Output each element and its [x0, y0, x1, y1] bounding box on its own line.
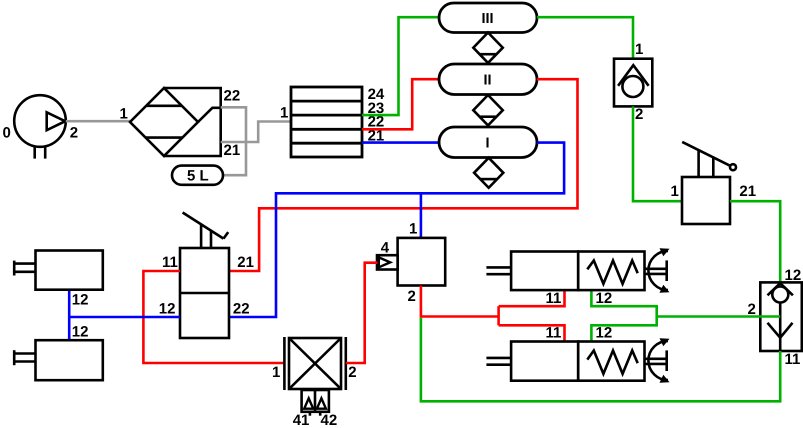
- svg-text:12: 12: [72, 324, 89, 341]
- lever valve V1 (center): [180, 213, 229, 339]
- svg-text:22: 22: [224, 87, 241, 104]
- wire gray compressor to filter: [66, 120, 130, 123]
- svg-text:I: I: [485, 136, 489, 152]
- wire gray port22 to reservoir: [221, 107, 246, 175]
- svg-text:12: 12: [596, 325, 613, 342]
- wire red center valve 11 to impulse valve 1: [143, 271, 284, 363]
- svg-text:II: II: [483, 73, 491, 89]
- wire green check valve to lever valve: [633, 106, 682, 201]
- svg-text:1: 1: [635, 41, 643, 58]
- svg-text:5 L: 5 L: [187, 168, 209, 185]
- reservoir 5L: [172, 166, 223, 185]
- svg-text:22: 22: [233, 300, 250, 317]
- wire blue manifold to receiver I: [362, 141, 439, 144]
- svg-text:12: 12: [159, 300, 176, 317]
- svg-text:2: 2: [348, 364, 356, 381]
- wire green III to check valve: [537, 17, 633, 59]
- knob arrows lower: [660, 338, 670, 383]
- pilot valve (3/2, ports 1-4-2): [377, 238, 445, 286]
- throttle valve upper (spring): [486, 251, 668, 290]
- svg-text:11: 11: [546, 290, 562, 307]
- receiver II: [439, 64, 537, 95]
- svg-text:2: 2: [408, 288, 416, 305]
- wire blue center valve 12 to buttons: [69, 316, 180, 319]
- wire green bottom loop: [421, 318, 780, 402]
- svg-text:1: 1: [272, 364, 280, 381]
- svg-text:42: 42: [321, 412, 338, 428]
- condensate drain III: [473, 33, 503, 63]
- wire blue I right to distribution: [229, 143, 564, 317]
- svg-text:21: 21: [739, 183, 756, 200]
- svg-text:2: 2: [635, 106, 643, 123]
- compressor 0: [14, 95, 66, 158]
- svg-text:12: 12: [596, 290, 613, 307]
- svg-text:1: 1: [120, 106, 128, 123]
- condensate drain II: [473, 95, 503, 125]
- svg-text:11: 11: [162, 254, 178, 271]
- svg-text:12: 12: [785, 267, 802, 284]
- svg-text:11: 11: [785, 351, 801, 368]
- svg-text:1: 1: [671, 183, 679, 200]
- svg-text:12: 12: [72, 292, 89, 309]
- svg-text:21: 21: [224, 142, 241, 159]
- receiver I: [439, 127, 537, 158]
- wire blue button stubs: [68, 290, 71, 341]
- svg-text:21: 21: [237, 254, 254, 271]
- svg-text:1: 1: [409, 220, 417, 237]
- svg-text:III: III: [481, 11, 493, 27]
- svg-text:1: 1: [280, 104, 288, 121]
- manifold block: [291, 87, 362, 157]
- wire red manifold to receiver II: [362, 79, 439, 129]
- throttle valve lower (spring): [486, 341, 668, 381]
- svg-text:11: 11: [546, 325, 562, 342]
- wire red II right to lever valve 21 net: [229, 79, 578, 271]
- wire red pilot valve out: [421, 286, 499, 317]
- impulse valve (X box): [284, 337, 345, 416]
- wire red H split: [499, 290, 565, 341]
- svg-text:0: 0: [3, 124, 11, 141]
- condensate drain I: [474, 158, 503, 188]
- wire gray port21 to manifold: [221, 122, 291, 143]
- pneumatic sensor upper-left: [14, 251, 103, 290]
- svg-text:41: 41: [293, 412, 310, 428]
- wire green manifold to receiver III: [362, 17, 439, 115]
- wire red impulse valve 2 to pilot port 4: [346, 263, 378, 363]
- svg-text:4: 4: [381, 240, 390, 257]
- check valve: [614, 59, 652, 107]
- lever valve V2 (right): [682, 142, 736, 224]
- service unit (filter/dryer): [130, 88, 221, 156]
- shuttle/quick exhaust valve: [760, 282, 802, 351]
- svg-text:2: 2: [70, 124, 78, 141]
- wire blue branch to valve port1: [420, 193, 423, 238]
- receiver III: [439, 3, 537, 33]
- wire green lever valve to shuttle top: [730, 201, 780, 282]
- wire green H split: [591, 290, 780, 341]
- pneumatic sensor lower-left: [14, 340, 103, 380]
- knob arrows upper: [660, 248, 670, 293]
